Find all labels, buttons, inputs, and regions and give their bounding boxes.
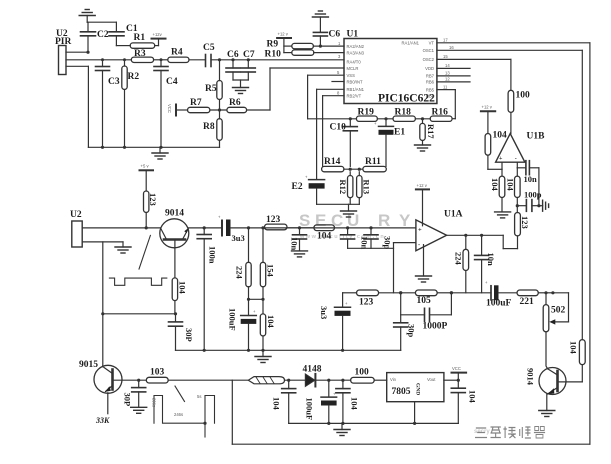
svg-text:1: 1 bbox=[338, 41, 341, 46]
capacitor C3 bbox=[96, 58, 120, 147]
svg-text:+: + bbox=[485, 280, 488, 285]
svg-text:RB4: RB4 bbox=[426, 94, 435, 99]
capacitor 10n (input filter 1) bbox=[290, 226, 307, 251]
svg-text:R14: R14 bbox=[324, 157, 341, 167]
svg-text:104: 104 bbox=[569, 341, 579, 355]
svg-text:R8: R8 bbox=[203, 122, 215, 132]
resistor 104 (Q3 base) bbox=[569, 340, 586, 382]
transistor Q3 9014 (output) bbox=[526, 368, 583, 395]
svg-text:30p: 30p bbox=[383, 236, 393, 250]
svg-text:R18: R18 bbox=[395, 108, 412, 118]
svg-text:14: 14 bbox=[445, 63, 450, 68]
capacitor 10n (U1A out) bbox=[475, 234, 496, 293]
svg-text:+12 v: +12 v bbox=[417, 183, 428, 188]
wire (PIC pin17 to inner right run) bbox=[437, 50, 582, 339]
svg-text:U1A: U1A bbox=[444, 210, 463, 220]
ground (U1A power pin) bbox=[416, 245, 432, 282]
svg-text:123: 123 bbox=[148, 193, 158, 206]
svg-text:13: 13 bbox=[445, 71, 450, 76]
svg-text:OSC2: OSC2 bbox=[423, 57, 435, 62]
svg-text:221: 221 bbox=[520, 297, 535, 307]
svg-text:15: 15 bbox=[443, 54, 448, 59]
svg-text:U1B: U1B bbox=[527, 132, 546, 142]
svg-text:Vout: Vout bbox=[427, 377, 436, 382]
ground (U2 lower pin) bbox=[115, 242, 131, 253]
resistor R9 bbox=[267, 40, 314, 50]
resistor R6 bbox=[227, 98, 247, 113]
svg-text:104: 104 bbox=[493, 131, 508, 141]
svg-text:-: - bbox=[515, 156, 517, 162]
wire (C2 top to C1 top) bbox=[87, 21, 116, 23]
svg-text:C3: C3 bbox=[108, 77, 120, 87]
pin stub (PIC pin6) bbox=[332, 81, 344, 83]
svg-text:C6: C6 bbox=[329, 30, 341, 40]
svg-text:33K: 33K bbox=[95, 416, 110, 425]
capacitor 30P (Q2 net) bbox=[169, 314, 195, 351]
svg-text:104: 104 bbox=[506, 178, 516, 192]
ground (sideways, right of 100p) bbox=[539, 200, 549, 211]
resistor R11 bbox=[344, 157, 386, 172]
capacitor C6 (front-end) bbox=[226, 50, 240, 80]
svg-text:100uF: 100uF bbox=[228, 308, 238, 331]
svg-text:8: 8 bbox=[337, 91, 340, 96]
regulator 7805 bbox=[374, 373, 444, 424]
wire (Q2 base out) bbox=[114, 379, 146, 382]
waveform (inverted pulses annotation) bbox=[109, 278, 166, 285]
svg-text:103: 103 bbox=[150, 368, 165, 378]
svg-text:VCC: VCC bbox=[452, 366, 461, 371]
svg-text:R: R bbox=[378, 211, 390, 230]
svg-text:10n: 10n bbox=[360, 236, 370, 250]
svg-text:RA3/AN3: RA3/AN3 bbox=[347, 50, 365, 55]
resistor R18 bbox=[377, 108, 415, 122]
svg-text:17: 17 bbox=[443, 38, 448, 43]
svg-text:10n: 10n bbox=[290, 237, 300, 251]
wire (U2 to 9014 base) bbox=[82, 227, 160, 229]
capacitor 30p (feedback) bbox=[394, 293, 417, 351]
annotation line (diagonal small) bbox=[175, 386, 185, 402]
wire (U2 pin3 down to rail) bbox=[66, 66, 88, 147]
capacitor 100uF (power, electrolytic) bbox=[305, 380, 337, 423]
capacitor 100uF (mid-left electrolytic) bbox=[228, 299, 257, 350]
svg-text:R9: R9 bbox=[267, 40, 279, 50]
resistor 123 (feedback row left) bbox=[265, 215, 288, 230]
power bar (U1A supply) bbox=[416, 183, 429, 226]
svg-text:R3: R3 bbox=[134, 49, 146, 59]
capacitor 10n (input filter 2) bbox=[341, 226, 370, 249]
svg-text:C4: C4 bbox=[166, 77, 178, 87]
svg-text:C7: C7 bbox=[243, 50, 255, 60]
resistor 123 (9014 collector load) bbox=[144, 191, 159, 229]
diode D1 4148 bbox=[303, 365, 322, 387]
svg-text:+: + bbox=[253, 309, 256, 314]
svg-text:100: 100 bbox=[355, 368, 370, 378]
svg-text:Y: Y bbox=[399, 211, 411, 230]
capacitor C2 bbox=[81, 22, 109, 52]
capacitor C1 bbox=[109, 22, 138, 45]
pin stub (PIC right, pin 13) bbox=[437, 81, 470, 83]
svg-text:C: C bbox=[331, 211, 343, 230]
wire (Q1 emitter out) bbox=[188, 227, 221, 229]
svg-text:VT: VT bbox=[429, 41, 435, 46]
wire (U1A minus input) bbox=[394, 243, 416, 293]
ground (below U1B 104) bbox=[495, 212, 511, 218]
capacitor C7 bbox=[241, 50, 255, 80]
wire (224/154 bottoms) bbox=[247, 298, 265, 301]
node (R5/R7/R6/R8 junction) bbox=[210, 100, 227, 119]
resistor R4 bbox=[168, 48, 189, 63]
svg-text:3u3: 3u3 bbox=[232, 233, 245, 243]
svg-text:5: 5 bbox=[337, 70, 340, 75]
pin stub (PIC right, pin 14) bbox=[437, 75, 470, 77]
svg-text:+: + bbox=[305, 175, 308, 180]
svg-text:+: + bbox=[345, 301, 348, 306]
svg-text:11: 11 bbox=[443, 84, 448, 89]
wire (C1 to R1) bbox=[116, 45, 130, 47]
ground (mid rail) bbox=[255, 350, 271, 362]
svg-text:R17: R17 bbox=[426, 124, 436, 139]
ground (below C6/C7) bbox=[233, 80, 249, 94]
VCC mark (left of R7) bbox=[167, 104, 188, 116]
wire (P1 to diode) bbox=[285, 379, 306, 382]
capacitor 1000P (parallel 105) bbox=[401, 291, 453, 331]
svg-text:OSC1: OSC1 bbox=[423, 48, 435, 53]
node (minus feedback junction) bbox=[379, 291, 416, 294]
svg-text:224: 224 bbox=[235, 266, 245, 280]
wire (PIC pin to R16 right) bbox=[437, 90, 455, 119]
wire (U2 lower net to Q2) bbox=[103, 312, 177, 366]
svg-text:U1: U1 bbox=[347, 30, 359, 40]
svg-text:3: 3 bbox=[338, 54, 341, 59]
capacitor 10n (U1B feedback) bbox=[517, 161, 539, 184]
ground (top-left, above C2) bbox=[79, 10, 95, 23]
svg-text:1000P: 1000P bbox=[423, 322, 448, 332]
svg-text:+: + bbox=[374, 121, 377, 126]
svg-text:104: 104 bbox=[266, 315, 276, 329]
capacitor 30p (input filter) bbox=[364, 226, 393, 249]
svg-text:9014: 9014 bbox=[526, 368, 536, 386]
svg-text:E2: E2 bbox=[292, 182, 303, 192]
svg-text:R16: R16 bbox=[432, 108, 449, 118]
svg-text:VCC: VCC bbox=[167, 104, 172, 113]
resistor R5 bbox=[205, 58, 222, 99]
wire (outer loop bottom and left riser) bbox=[232, 380, 590, 444]
svg-text:MCLR: MCLR bbox=[347, 66, 359, 71]
wire (PIC OSC pin to 100 resistor) bbox=[437, 59, 511, 90]
annotation line (diagonal) bbox=[139, 235, 150, 269]
sensor U2 (mid-left) bbox=[70, 210, 82, 247]
wire (3u3 to U1A +) bbox=[231, 227, 416, 229]
wire (filter caps to minus node) bbox=[348, 247, 394, 249]
svg-text:E1: E1 bbox=[394, 128, 405, 138]
resistor 123 (feedback) bbox=[357, 290, 379, 308]
component P1 (sounder pill) bbox=[248, 377, 284, 384]
wire (PIC pin5 to R19 row) bbox=[308, 75, 344, 119]
resistor 105 bbox=[415, 290, 437, 306]
svg-text:RA2/AN2: RA2/AN2 bbox=[347, 44, 365, 49]
wire (PIC pin18 to outer right loop) bbox=[437, 43, 590, 444]
capacitor 3u3 (series) bbox=[218, 215, 245, 244]
resistor R8 bbox=[203, 119, 222, 148]
svg-text:Vin: Vin bbox=[390, 377, 397, 382]
svg-text:C10: C10 bbox=[330, 123, 347, 133]
svg-text:R13: R13 bbox=[362, 180, 372, 195]
op-amp U1A bbox=[416, 210, 463, 251]
svg-text:104: 104 bbox=[468, 390, 478, 404]
ground (power rail) bbox=[334, 423, 350, 435]
wire (U1A output) bbox=[447, 235, 518, 248]
resistor 103 bbox=[146, 368, 168, 384]
svg-text:100uF: 100uF bbox=[486, 299, 512, 309]
power bar (right of R1) bbox=[152, 32, 166, 46]
resistor 100 (power) bbox=[351, 368, 375, 384]
ground (front-end rail) bbox=[152, 147, 168, 159]
wire (R19 row) bbox=[308, 118, 357, 120]
resistor R10 bbox=[265, 50, 314, 60]
svg-text:GND: GND bbox=[415, 383, 421, 395]
resistor 221 bbox=[499, 290, 539, 307]
wire (U2 lower pin) bbox=[82, 242, 123, 316]
wire (502 to Q3 collector) bbox=[546, 332, 548, 369]
svg-text:R7: R7 bbox=[190, 98, 202, 108]
capacitor C4 bbox=[154, 58, 178, 147]
svg-text:R2: R2 bbox=[128, 72, 140, 82]
svg-text:C6: C6 bbox=[227, 50, 239, 60]
svg-text:502: 502 bbox=[551, 306, 566, 316]
svg-text:RA1/AN1: RA1/AN1 bbox=[402, 41, 420, 46]
svg-text:+12v: +12v bbox=[153, 32, 163, 37]
transistor Q2 9015 bbox=[79, 360, 122, 393]
svg-text:E: E bbox=[315, 211, 326, 230]
power bar (above 123 mid-left) bbox=[140, 164, 154, 192]
svg-text:104: 104 bbox=[272, 397, 282, 411]
svg-text:100uF: 100uF bbox=[305, 398, 315, 421]
wire (PIC pin8 to R14) bbox=[323, 96, 344, 167]
svg-text:154: 154 bbox=[266, 264, 276, 278]
svg-text:7805: 7805 bbox=[392, 387, 411, 397]
svg-text:12: 12 bbox=[445, 77, 450, 82]
wire (diode to 100) bbox=[316, 379, 350, 382]
svg-text:-: - bbox=[418, 242, 420, 249]
svg-text:105: 105 bbox=[417, 296, 432, 306]
transistor Q1 9014 bbox=[160, 209, 189, 278]
capacitor C6 (reset, with ground above) bbox=[312, 11, 340, 46]
wire (U2 pin2 main signal) bbox=[66, 59, 131, 61]
svg-text:RB6: RB6 bbox=[426, 80, 435, 85]
svg-text:R4: R4 bbox=[171, 48, 183, 58]
capacitor E1 (electrolytic) bbox=[374, 117, 405, 166]
svg-text:104: 104 bbox=[317, 232, 332, 242]
svg-text:100: 100 bbox=[516, 91, 531, 101]
svg-text:3u3: 3u3 bbox=[319, 306, 329, 319]
capacitor 100uF (series electrolytic) bbox=[485, 280, 512, 309]
svg-text:R6: R6 bbox=[229, 98, 241, 108]
svg-text:206s: 206s bbox=[152, 398, 157, 407]
svg-text:R12: R12 bbox=[338, 180, 348, 195]
waveform (pulse annotation) bbox=[152, 394, 215, 437]
wire (Q3 emitter to ground) bbox=[539, 394, 555, 417]
resistor 104 (U1B + to gnd) bbox=[490, 169, 505, 212]
svg-text:9015: 9015 bbox=[79, 360, 98, 370]
svg-text:224: 224 bbox=[454, 252, 464, 266]
ground (below R17) bbox=[415, 145, 431, 151]
power bar (R9/R10 supply) bbox=[277, 32, 292, 53]
op-amp U1B bbox=[496, 132, 546, 170]
resistor 104 (U1B -) bbox=[506, 168, 521, 213]
svg-text:VSS: VSS bbox=[347, 73, 356, 78]
capacitor 100p bbox=[516, 168, 542, 212]
svg-text:246s: 246s bbox=[174, 412, 183, 417]
svg-text:+12 v: +12 v bbox=[278, 32, 289, 37]
svg-text:123: 123 bbox=[266, 215, 281, 225]
resistor R13 bbox=[357, 168, 372, 205]
wire (front-end ground rail) bbox=[88, 146, 219, 149]
svg-text:RA4/T0: RA4/T0 bbox=[347, 59, 362, 64]
resistor R1 bbox=[130, 33, 155, 48]
resistor R19 bbox=[356, 108, 377, 122]
svg-text:4148: 4148 bbox=[303, 365, 322, 375]
resistor 100 (U1B output) bbox=[508, 90, 530, 133]
svg-text:R1: R1 bbox=[134, 33, 146, 43]
svg-text:30p: 30p bbox=[407, 324, 417, 338]
svg-text:30P: 30P bbox=[123, 393, 133, 407]
svg-text:9014: 9014 bbox=[165, 209, 184, 219]
wire (feedback row) bbox=[343, 292, 357, 294]
svg-text:RB7: RB7 bbox=[426, 74, 435, 79]
resistor R7 bbox=[188, 98, 210, 113]
svg-text:100p: 100p bbox=[524, 190, 542, 200]
svg-text:RB5: RB5 bbox=[426, 87, 435, 92]
title text bbox=[475, 427, 545, 439]
resistor 104 (U1B + bias) bbox=[485, 131, 507, 170]
power bar (U1B supply) bbox=[481, 105, 495, 134]
capacitor 100n (Q1 out) bbox=[197, 226, 217, 350]
resistor 154 bbox=[260, 226, 275, 299]
wire (R9 to PIC pin1) bbox=[313, 45, 344, 48]
wire (R12/R13 ground rail) bbox=[317, 203, 360, 205]
svg-text:104: 104 bbox=[178, 281, 188, 295]
resistor 224 (U1A out) bbox=[454, 234, 469, 293]
capacitor 104 (power in) bbox=[272, 380, 296, 423]
svg-text:R10: R10 bbox=[265, 50, 282, 60]
pin stub (PIC right, pin 15) bbox=[437, 67, 470, 69]
resistor R17 bbox=[420, 117, 436, 145]
wire (row to 100uF) bbox=[451, 292, 491, 294]
wire (R6 to PIC pin4) bbox=[247, 68, 344, 110]
svg-text:R19: R19 bbox=[358, 108, 375, 118]
svg-text:+5 v: +5 v bbox=[141, 164, 150, 169]
wire (U2 pin1 to C2 bottom) bbox=[66, 51, 90, 54]
svg-text:123: 123 bbox=[520, 216, 530, 229]
wire (C5 to PIC pin3, main) bbox=[211, 59, 344, 61]
svg-text:PIR: PIR bbox=[55, 37, 72, 47]
svg-text:16: 16 bbox=[449, 45, 454, 50]
capacitor 104 (power out) bbox=[451, 380, 477, 423]
svg-text:+: + bbox=[499, 156, 503, 162]
trimmer 502 bbox=[538, 291, 568, 332]
svg-text:+: + bbox=[418, 227, 422, 234]
resistor 104 (mid-left) bbox=[260, 299, 276, 350]
wire (R10 to PIC pin2) bbox=[314, 52, 344, 54]
resistor 224 (to gnd net) bbox=[235, 226, 252, 299]
svg-text:+: + bbox=[218, 215, 221, 220]
PIR sensor U2 bbox=[55, 29, 72, 75]
capacitor 3u3 (feedback, electrolytic) bbox=[319, 293, 351, 351]
wire (7805 output) bbox=[444, 379, 460, 382]
wire (PIC pin7 to E2) bbox=[317, 89, 344, 179]
svg-text:100n: 100n bbox=[208, 246, 218, 264]
ground (below 30P) bbox=[131, 407, 147, 413]
svg-text:U2: U2 bbox=[70, 210, 82, 220]
ground (below 10n) bbox=[292, 251, 308, 257]
svg-text:5s: 5s bbox=[197, 394, 201, 399]
resistor R3 bbox=[131, 49, 153, 63]
svg-text:104: 104 bbox=[490, 178, 500, 192]
wire (power ground rail) bbox=[289, 422, 459, 425]
svg-text:10n: 10n bbox=[524, 174, 538, 184]
svg-text:C5: C5 bbox=[203, 43, 215, 53]
capacitor C5 (series) bbox=[189, 43, 215, 67]
svg-text:RB2/VT: RB2/VT bbox=[347, 94, 362, 99]
wire (Q2 emitter to 33K mark) bbox=[95, 393, 110, 425]
resistor R14 bbox=[322, 157, 344, 172]
ground (R12/R13 rail) bbox=[341, 204, 357, 217]
svg-text:+12 v: +12 v bbox=[482, 105, 493, 110]
capacitor C10 bbox=[330, 117, 358, 166]
svg-text:30P: 30P bbox=[184, 328, 194, 342]
resistor 123 (U1B to U1A out) bbox=[515, 213, 530, 236]
svg-text:10n: 10n bbox=[486, 253, 496, 267]
svg-text:R11: R11 bbox=[365, 157, 381, 167]
svg-text:C2: C2 bbox=[97, 30, 109, 40]
wire (main ground rail mid) bbox=[176, 349, 401, 352]
capacitor 104 (power mid) bbox=[336, 380, 360, 423]
IC U1 PIC16C622 bbox=[344, 30, 437, 105]
resistor R2 bbox=[122, 58, 140, 147]
watermark bbox=[299, 211, 490, 435]
svg-text:R5: R5 bbox=[205, 84, 217, 94]
svg-text:VDD: VDD bbox=[425, 66, 434, 71]
svg-text:104: 104 bbox=[350, 397, 360, 411]
svg-text:RB0/INT: RB0/INT bbox=[347, 79, 363, 84]
capacitor 30P (Q2 base) bbox=[123, 380, 146, 407]
power bar (VCC output) bbox=[452, 366, 467, 380]
capacitor E2 (electrolytic) bbox=[292, 175, 325, 205]
wire (103 to power node) bbox=[168, 379, 232, 381]
resistor 104 (feedback row) bbox=[287, 225, 335, 242]
svg-text:123: 123 bbox=[359, 298, 374, 308]
svg-text:RB1/AN1: RB1/AN1 bbox=[347, 87, 365, 92]
resistor R16 bbox=[415, 108, 452, 122]
resistor 104 (Q1 base bias) bbox=[172, 278, 187, 314]
resistor R12 bbox=[338, 168, 353, 205]
